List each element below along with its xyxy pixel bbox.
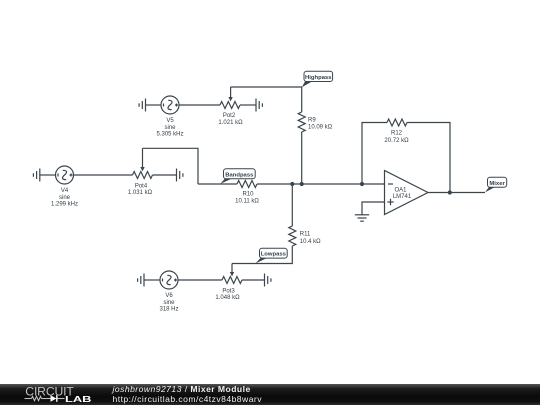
resistor R10 [237,181,257,188]
node label Bandpass [220,169,255,184]
svg-text:5.305 kHz: 5.305 kHz [156,131,183,137]
wire V4 to Pot4 [74,174,133,176]
wire R12 down to output [407,123,450,193]
voltage source V5 [161,96,179,114]
Pot4 labels [128,184,153,197]
svg-text:V6: V6 [165,293,173,299]
svg-text:R11: R11 [300,232,311,238]
svg-text:sine: sine [164,125,176,131]
svg-text:Bandpass: Bandpass [225,172,254,178]
ground G4 (right of Pot4) [177,169,183,182]
voltage source V6 [160,271,178,289]
svg-text:OA1: OA1 [394,188,407,194]
wire feedback up [362,123,387,185]
svg-text:Pot4: Pot4 [135,184,148,190]
svg-text:1.299 kHz: 1.299 kHz [51,201,78,207]
potentiometer Pot2 [220,87,240,109]
svg-text:1.021 kΩ: 1.021 kΩ [218,120,243,126]
svg-text:V4: V4 [61,188,69,194]
wire G1 to V5 [146,104,162,106]
svg-text:10.11 kΩ: 10.11 kΩ [235,199,259,205]
junction node at R11 branch [290,182,294,186]
OA1 labels [393,188,412,200]
svg-text:Pot2: Pot2 [223,113,236,119]
resistor R12 [387,119,407,126]
CircuitLab logo [0,384,100,405]
wire V5 to Pot2 [179,104,220,106]
wire G3 to V4 [40,174,56,176]
svg-text:LM741: LM741 [393,194,412,200]
svg-text:1.031 kΩ: 1.031 kΩ [128,190,153,196]
resistor R11 [289,226,296,246]
wire V6 to Pot3 [178,279,222,281]
svg-text:Lowpass: Lowpass [261,252,287,258]
V6 labels [159,293,178,312]
wire bus to R11 [291,184,293,226]
svg-text:R10: R10 [242,192,254,198]
potentiometer Pot3 [222,264,242,284]
wire op-amp output to Mixer node [428,192,485,194]
wire Pot4 to G4 [153,174,177,176]
Pot2 labels [218,113,243,126]
svg-text:318 Hz: 318 Hz [159,306,178,312]
wire G5 to V6 [144,279,160,281]
svg-text:LAB: LAB [65,395,92,404]
wire Pot4 wiper to Bandpass row [143,148,199,184]
node label Highpass [302,71,333,87]
svg-text:10.4 kΩ: 10.4 kΩ [300,239,321,245]
ground G7 (op-amp non-inverting input) [355,215,369,221]
svg-text:10.09 kΩ: 10.09 kΩ [308,125,333,131]
svg-text:sine: sine [163,300,175,306]
R10 labels [235,192,259,205]
wire R9 to bus [301,132,303,184]
ground G3 (left of V4) [33,169,39,182]
node label Lowpass [256,248,288,263]
ground G6 (right of Pot3) [265,274,271,287]
R12 labels [384,131,409,144]
svg-text:Highpass: Highpass [305,75,332,81]
junction node at feedback branch [360,182,364,186]
wire Pot2 to G2 [240,104,256,106]
voltage source V4 [56,166,74,184]
svg-text:1.048 kΩ: 1.048 kΩ [215,295,240,301]
svg-text:V5: V5 [166,118,174,124]
op-amp OA1 [385,171,429,215]
R11 labels [300,232,321,245]
wire R11 to Lowpass corner [232,246,292,264]
V5 labels [156,118,183,137]
potentiometer Pot4 [133,148,153,178]
svg-text:20.72 kΩ: 20.72 kΩ [384,138,409,144]
svg-text:R9: R9 [308,118,316,124]
bus wire R10 to op-amp [257,183,385,185]
V4 labels [51,188,78,207]
svg-text:sine: sine [59,195,71,201]
ground G2 (right of Pot2) [256,99,262,112]
svg-text:R12: R12 [391,131,403,137]
footer text [113,384,263,405]
Pot3 labels [215,289,240,302]
svg-text:Mixer: Mixer [489,181,505,187]
wire Pot2 wiper to Highpass node [231,87,302,112]
ground G1 (left of V5) [139,99,145,112]
svg-text:Pot3: Pot3 [222,289,235,295]
junction node at output [448,190,452,194]
resistor R9 [298,112,305,132]
node label Mixer [485,177,507,192]
footer bar [0,384,540,405]
ground G5 (left of V6) [138,274,144,287]
R9 labels [308,118,333,131]
wire op-amp + input to ground [362,202,385,215]
wire Pot3 to G6 [242,279,265,281]
wire Bandpass row to R10 [198,183,237,185]
junction node at R9 branch [300,182,304,186]
